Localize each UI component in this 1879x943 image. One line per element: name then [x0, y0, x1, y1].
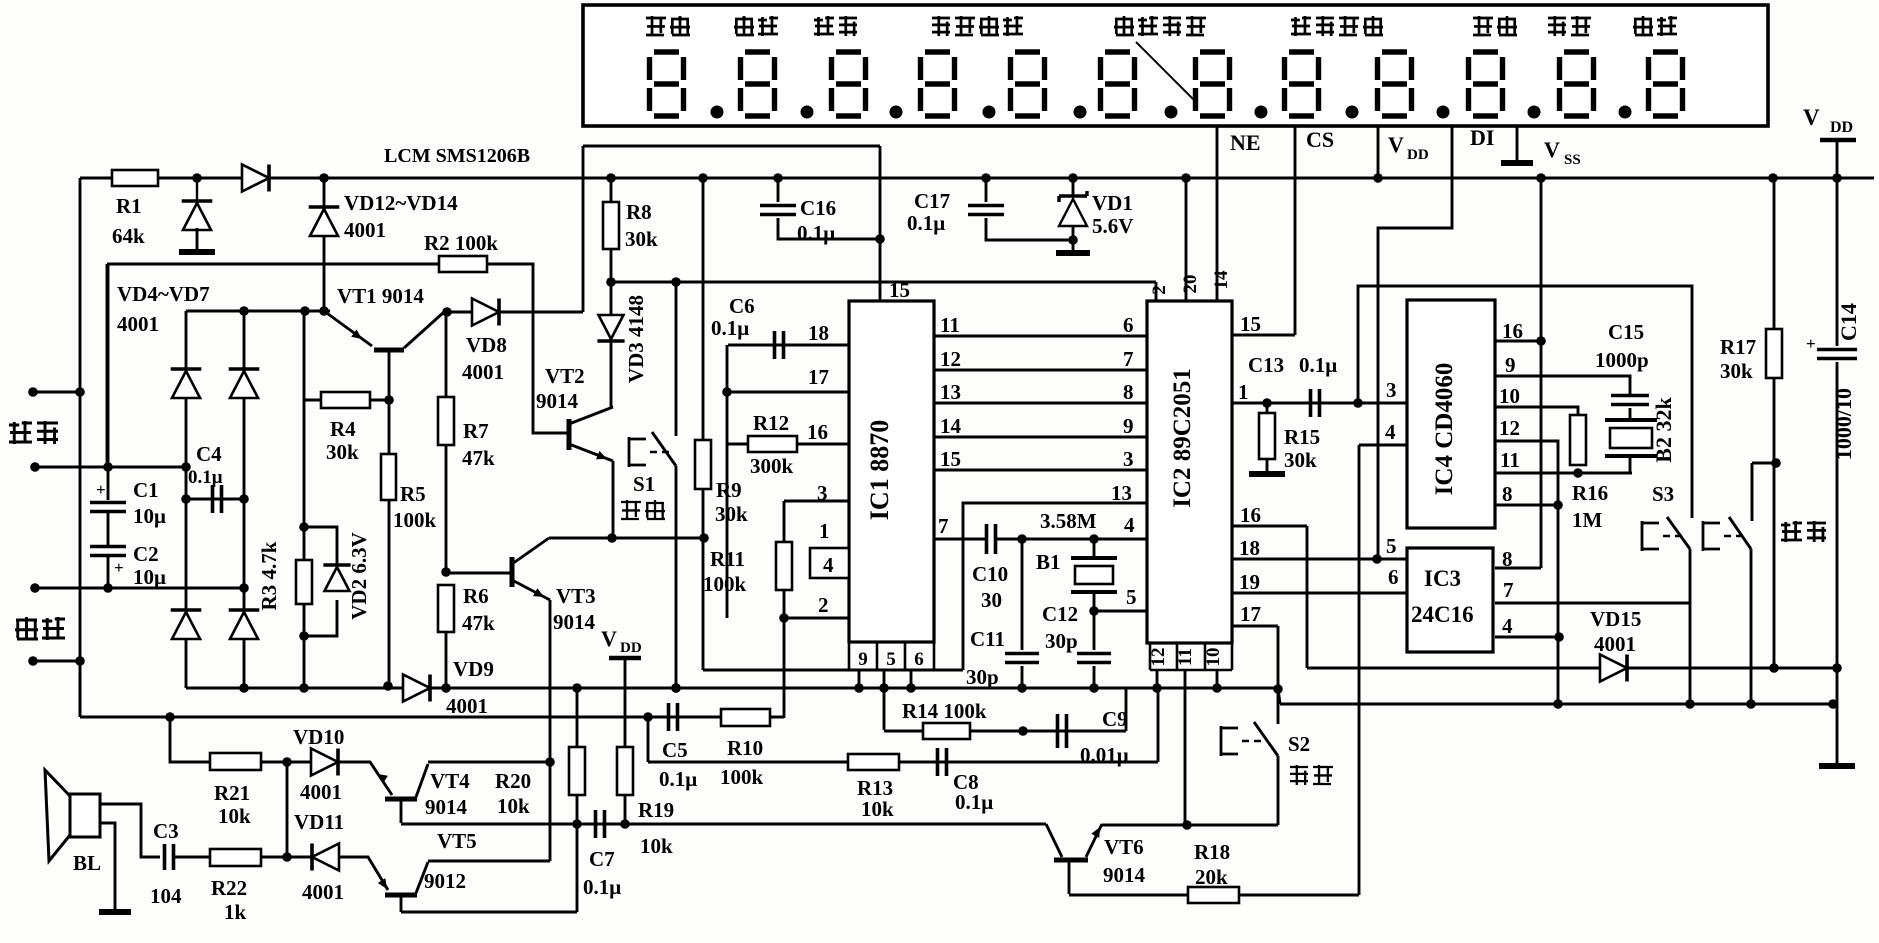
svg-text:5: 5: [1126, 585, 1137, 609]
svg-text:30k: 30k: [1284, 448, 1317, 472]
IC2 pin19 wire: [1232, 592, 1409, 595]
svg-text:R20: R20: [495, 769, 531, 793]
svg-text:R19: R19: [638, 798, 674, 822]
svg-text:4001: 4001: [300, 780, 342, 804]
wire display pin NE to IC2 pin 14: [1216, 126, 1219, 301]
svg-text:24C16: 24C16: [1411, 602, 1474, 627]
x703 vertical continues to y670 rail: [702, 538, 705, 670]
IC1 pin3 wire: [784, 500, 849, 503]
VT3 emitter vertical down: [549, 600, 552, 861]
svg-text:9014: 9014: [536, 389, 579, 413]
svg-text:4001: 4001: [344, 218, 386, 242]
svg-text:5: 5: [886, 649, 896, 670]
capacitor C7: [596, 810, 605, 838]
capacitor C6 on IC1 pin18: [728, 344, 849, 347]
svg-text:R22: R22: [211, 876, 247, 900]
zener diode VD1 5.6V with ground: [1072, 178, 1075, 196]
bottom right bus y704: [1280, 703, 1837, 706]
wire R2 right corner down to VT2 base: [487, 264, 569, 433]
svg-text:5.6V: 5.6V: [1092, 214, 1133, 238]
svg-text:S1: S1: [633, 472, 655, 496]
svg-text:VT2: VT2: [545, 364, 585, 388]
svg-text:R4: R4: [330, 417, 356, 441]
svg-text:12: 12: [1499, 416, 1520, 440]
transistor VT5 9012: [340, 857, 388, 890]
svg-text:6: 6: [1123, 313, 1134, 337]
vertical x108 with C1 C2: [107, 264, 110, 467]
diode VD3 4148: [610, 282, 613, 315]
svg-text:0.1μ: 0.1μ: [711, 316, 749, 340]
capacitor C11: [1021, 539, 1024, 650]
svg-text:14: 14: [940, 414, 962, 438]
svg-text:18: 18: [1239, 536, 1260, 560]
svg-text:1k: 1k: [224, 900, 247, 924]
svg-text:4001: 4001: [1594, 632, 1636, 656]
svg-text:9014: 9014: [425, 795, 468, 819]
svg-text:12: 12: [940, 347, 961, 371]
second bus y717: [80, 716, 784, 719]
svg-text:C15: C15: [1608, 320, 1644, 344]
svg-text:300k: 300k: [750, 454, 794, 478]
svg-text:R11: R11: [710, 547, 745, 571]
IC4 pin4 wire label: [1359, 444, 1407, 447]
svg-text:13: 13: [940, 380, 961, 404]
VT4 base line y824: [401, 823, 1046, 826]
svg-text:IC1 8870: IC1 8870: [865, 420, 894, 520]
svg-text:4001: 4001: [302, 880, 344, 904]
switch S2 chaxun: [1277, 626, 1280, 689]
resistor R12 on IC1 pin16: [748, 436, 797, 452]
zener VD2 parallel jog: [304, 527, 337, 636]
IC1 pin2 wire: [784, 617, 849, 620]
svg-text:0.1μ: 0.1μ: [659, 767, 697, 791]
capacitor C1 electrolytic: [90, 503, 126, 512]
big routing box around IC4: [1358, 286, 1692, 518]
svg-text:C9: C9: [1102, 707, 1128, 731]
svg-text:0.1μ: 0.1μ: [955, 790, 993, 814]
transistor VT3 9014: [446, 572, 512, 575]
svg-text:VD10: VD10: [293, 725, 344, 749]
svg-text:4001: 4001: [462, 360, 504, 384]
svg-text:30p: 30p: [966, 665, 999, 689]
resistor R14: [923, 723, 970, 739]
svg-text:9: 9: [1505, 353, 1516, 377]
R14 line from ground bus: [883, 688, 886, 730]
switch S3 second pole: [1729, 463, 1752, 549]
decimal point dots: [711, 106, 724, 119]
diode VD11 pointing left: [312, 844, 339, 871]
svg-text:+: +: [96, 480, 106, 499]
capacitor C3: [165, 844, 174, 870]
resistor R4: [304, 399, 322, 402]
svg-text:1: 1: [819, 519, 830, 543]
svg-text:16: 16: [1240, 503, 1261, 527]
wire display pin CS down to IC2 pin15 line: [1294, 126, 1297, 335]
svg-text:5: 5: [1386, 534, 1397, 558]
svg-text:C17: C17: [914, 189, 950, 213]
svg-text:4001: 4001: [446, 694, 488, 718]
svg-text:8: 8: [1123, 380, 1134, 404]
svg-text:IC3: IC3: [1424, 566, 1461, 591]
svg-text:VT6: VT6: [1104, 835, 1144, 859]
supply bus VDD horizontal: [80, 177, 1874, 180]
display ground pin stub: [1516, 126, 1519, 161]
svg-text:S3: S3: [1652, 482, 1674, 506]
resistor R16: [1570, 415, 1586, 465]
wire x1158 up to ground bus: [1157, 688, 1160, 762]
svg-text:11: 11: [1175, 648, 1196, 666]
svg-text:10μ: 10μ: [133, 565, 166, 589]
wire C9 corner up to bus: [1125, 688, 1128, 731]
svg-text:IC2 89C2051: IC2 89C2051: [1169, 368, 1196, 508]
svg-text:4: 4: [1502, 614, 1513, 638]
jog from R17 vertical to S3: [1752, 462, 1776, 465]
left vertical rail x80: [79, 178, 82, 717]
svg-text:11: 11: [1500, 448, 1520, 472]
svg-text:VD15: VD15: [1590, 607, 1641, 631]
bridge top wire y311: [186, 310, 330, 313]
IC1 bottom pin cells 9 5 6: [849, 642, 934, 670]
svg-text:9014: 9014: [1103, 863, 1146, 887]
wire R18 up to IC4 pin4 long vertical: [1358, 445, 1361, 895]
IC2 pin17 wire corner down: [1232, 625, 1278, 628]
wire from display area down-left loop: [583, 145, 880, 148]
svg-text:0.1μ: 0.1μ: [797, 221, 835, 245]
IC3 pin7 wire: [1495, 602, 1690, 605]
svg-text:C12: C12: [1042, 602, 1078, 626]
IC4 pin8 wire: [1495, 504, 1558, 507]
diode VD14 horizontal on bus: [242, 165, 269, 192]
x1558 vertical down to bottom bus: [1557, 505, 1560, 704]
resistor R20: [576, 688, 579, 748]
VT5 collector line to x551: [428, 860, 550, 863]
resistor R22: [174, 856, 211, 859]
svg-text:R14 100k: R14 100k: [902, 699, 987, 723]
svg-text:9012: 9012: [424, 869, 466, 893]
svg-text:R3 4.7k: R3 4.7k: [257, 541, 281, 610]
svg-text:R9: R9: [716, 478, 742, 502]
op-amp IC1 8870 box: [849, 301, 934, 642]
svg-text:30p: 30p: [1045, 629, 1078, 653]
svg-text:15: 15: [940, 447, 961, 471]
svg-text:7: 7: [1123, 347, 1134, 371]
svg-text:13: 13: [1111, 481, 1132, 505]
capacitor C9: [1058, 714, 1067, 748]
svg-text:6: 6: [914, 649, 924, 670]
resistor R7: [445, 312, 448, 398]
svg-text:14: 14: [1211, 270, 1232, 290]
IC2 bottom pin cells 12 11 10: [1150, 643, 1232, 670]
resistor R11 on IC1 pin3 drop: [783, 501, 786, 543]
resistor R18: [1069, 894, 1189, 897]
wire VT1 collector to VD8 line: [444, 311, 583, 314]
svg-text:C14: C14: [1836, 303, 1861, 341]
svg-text:10k: 10k: [497, 794, 530, 818]
resistor R15 with ground: [1266, 403, 1269, 414]
svg-text:R18: R18: [1194, 840, 1230, 864]
svg-text:100k: 100k: [393, 508, 437, 532]
svg-text:R1: R1: [116, 194, 142, 218]
IC2 pin1 C13 line: [1232, 402, 1407, 405]
interconnect y282 to IC2 pin2: [611, 281, 1156, 284]
svg-text:VD1: VD1: [1092, 191, 1133, 215]
svg-text:1000/10: 1000/10: [1831, 388, 1856, 460]
svg-text:100k: 100k: [703, 572, 747, 596]
svg-text:C7: C7: [589, 847, 615, 871]
IC4 pin10 wire to R16: [1495, 407, 1578, 416]
svg-text:R6: R6: [463, 584, 489, 608]
svg-text:LCM SMS1206B: LCM SMS1206B: [384, 145, 530, 167]
svg-text:9: 9: [858, 649, 868, 670]
svg-text:9014: 9014: [553, 610, 596, 634]
svg-text:C10: C10: [972, 562, 1008, 586]
svg-text:2: 2: [818, 593, 829, 617]
svg-text:C2: C2: [133, 542, 159, 566]
ground symbol bottom right: [1836, 704, 1839, 764]
svg-text:3: 3: [817, 481, 828, 505]
svg-text:17: 17: [808, 365, 829, 389]
IC4 pin11 wire: [1495, 472, 1632, 475]
svg-text:R21: R21: [214, 781, 250, 805]
line terminal lower pair: [30, 583, 40, 593]
crystal B2 32k: [1629, 408, 1632, 420]
svg-text:C1: C1: [133, 478, 159, 502]
switch S1 with long vertical: [675, 282, 678, 436]
svg-text:11: 11: [940, 313, 960, 337]
svg-text:VD3 4148: VD3 4148: [624, 295, 648, 383]
svg-text:47k: 47k: [462, 446, 495, 470]
svg-text:10k: 10k: [861, 797, 894, 821]
display digit labels (Chinese captions): [646, 16, 666, 36]
phone terminal upper pair: [28, 387, 38, 397]
svg-text:3: 3: [1123, 447, 1134, 471]
svg-text:C3: C3: [153, 819, 179, 843]
svg-text:R16: R16: [1572, 481, 1608, 505]
diode VD8: [472, 299, 499, 326]
svg-text:20k: 20k: [1195, 865, 1228, 889]
link between R21 and R22 lines: [286, 762, 289, 857]
svg-text:20: 20: [1180, 275, 1201, 294]
svg-text:7: 7: [938, 514, 949, 538]
resistor R3 with label: [303, 311, 306, 561]
IC2 pin13 wire with corner: [963, 503, 1147, 670]
diode VD12 with ground: [196, 178, 198, 201]
svg-text:+: +: [114, 558, 124, 577]
label xianlu (line): [15, 617, 38, 640]
capacitor C5 on y717 line: [669, 703, 678, 731]
svg-text:R5: R5: [400, 482, 426, 506]
jog ground bus to y704: [1278, 688, 1280, 704]
IC1 pin17 wire: [727, 391, 849, 394]
counter IC4 CD4060 box: [1407, 300, 1495, 528]
svg-text:V: V: [1803, 105, 1820, 130]
resistor R10: [721, 709, 770, 726]
svg-text:3: 3: [1386, 378, 1397, 402]
micro IC2 89C2051 box: [1147, 301, 1232, 643]
VT6 emitter line y824 east: [1102, 824, 1278, 827]
svg-text:DD: DD: [1830, 119, 1853, 136]
svg-text:7: 7: [1503, 578, 1514, 602]
svg-text:1000p: 1000p: [1595, 348, 1649, 372]
svg-text:10μ: 10μ: [133, 504, 166, 528]
IC2 pin18 wire: [1232, 558, 1409, 561]
IC4 pin9 wire to C15: [1495, 376, 1630, 394]
svg-text:R8: R8: [626, 200, 652, 224]
svg-text:12: 12: [1148, 648, 1169, 667]
svg-text:15: 15: [1240, 312, 1261, 336]
svg-text:V: V: [1544, 137, 1560, 162]
svg-text:R2 100k: R2 100k: [424, 231, 498, 255]
diode VD9 on ground bus: [403, 675, 430, 702]
speaker BL: [70, 794, 100, 837]
svg-text:64k: 64k: [112, 224, 145, 248]
wire from ground bus to VT6 line: [1184, 688, 1187, 825]
capacitor C12: [1093, 611, 1096, 650]
svg-text:9: 9: [1123, 414, 1134, 438]
svg-text:C11: C11: [970, 627, 1005, 651]
svg-text:15: 15: [889, 278, 910, 302]
svg-text:17: 17: [1240, 602, 1261, 626]
svg-text:VT3: VT3: [556, 584, 596, 608]
electrolytic C14 on right rail: [1836, 178, 1839, 346]
svg-text:VT4: VT4: [430, 769, 470, 793]
svg-text:DD: DD: [1407, 147, 1429, 163]
svg-text:C4: C4: [196, 442, 222, 466]
svg-text:VT5: VT5: [437, 829, 477, 853]
svg-text:4: 4: [823, 553, 834, 577]
svg-text:VD11: VD11: [294, 810, 344, 834]
IC2 bottom pin drops: [1156, 670, 1159, 688]
svg-text:3.58M: 3.58M: [1040, 509, 1097, 533]
resistor R19: [624, 658, 627, 748]
IC4 pin16 wire: [1495, 340, 1541, 343]
svg-text:4: 4: [1124, 513, 1135, 537]
bridge right rail with diodes VD5 VD7: [243, 311, 246, 688]
wire display pin DI jog down to IC2 pin18 line: [1378, 126, 1452, 559]
svg-text:30k: 30k: [1720, 359, 1753, 383]
resistor R17: [1773, 178, 1776, 330]
label huaji (telephone): [9, 421, 32, 444]
svg-text:VD12~VD14: VD12~VD14: [344, 191, 458, 215]
VT2 emitter down to y538: [612, 461, 615, 538]
svg-text:0.1μ: 0.1μ: [188, 467, 223, 488]
svg-text:B2 32k: B2 32k: [1651, 397, 1676, 463]
wire second bus y264 to R2: [107, 263, 440, 266]
svg-text:C6: C6: [729, 294, 755, 318]
svg-text:VT1 9014: VT1 9014: [337, 284, 424, 308]
svg-text:0.01μ: 0.01μ: [1080, 743, 1129, 767]
resistor R13: [848, 754, 899, 770]
IC2 pin5 wire: [1094, 610, 1147, 613]
svg-text:C13: C13: [1248, 353, 1284, 377]
svg-text:R10: R10: [727, 736, 763, 760]
capacitor C13: [1311, 389, 1320, 417]
svg-text:R7: R7: [463, 419, 489, 443]
ground symbol below display: [1501, 160, 1533, 166]
IC1 pin4 inset box: [810, 548, 849, 578]
ground bus y688: [186, 687, 1278, 690]
memory IC3 24C16 box: [1407, 548, 1493, 652]
svg-text:VD4~VD7: VD4~VD7: [117, 282, 210, 306]
svg-text:16: 16: [807, 420, 828, 444]
svg-text:R15: R15: [1284, 425, 1320, 449]
junction dots on supply bus: [192, 173, 202, 183]
svg-text:VD9: VD9: [453, 657, 494, 681]
svg-text:B1: B1: [1036, 550, 1061, 574]
svg-text:2: 2: [1149, 285, 1170, 295]
wire x648 corner down to R13 line: [647, 717, 650, 762]
transistor VT4 9014: [339, 762, 392, 795]
svg-text:100k: 100k: [720, 765, 764, 789]
svg-text:R12: R12: [753, 411, 789, 435]
svg-text:30k: 30k: [715, 502, 748, 526]
resistor R8: [610, 178, 613, 203]
label chaxun (query): [1290, 765, 1308, 785]
svg-text:10: 10: [1203, 648, 1224, 667]
VT3 collector line y538: [549, 537, 704, 540]
speaker ground wire: [100, 823, 115, 910]
svg-text:4001: 4001: [117, 312, 159, 336]
transistor VT6 9014: [1046, 824, 1062, 857]
svg-text:16: 16: [1502, 319, 1523, 343]
IC2 pin15 wire to CS: [1232, 334, 1295, 337]
IC3 pin8 wire corner up to VSS: [1495, 567, 1541, 570]
capacitor C16: [777, 178, 780, 202]
svg-text:18: 18: [808, 321, 829, 345]
VT5 base line up to y824: [401, 911, 577, 914]
IC1 pin7 line with capacitor C10: [934, 538, 986, 541]
svg-text:10k: 10k: [218, 804, 251, 828]
svg-text:4: 4: [1385, 420, 1396, 444]
resistor R21: [170, 717, 211, 762]
resistor R2: [439, 256, 487, 272]
IC4 pin12 wire corner down: [1495, 441, 1558, 505]
svg-text:R17: R17: [1720, 335, 1756, 359]
y670 rail under IC1: [703, 669, 963, 672]
diode VD13 vertical: [323, 178, 326, 311]
resistor R6: [438, 585, 454, 632]
wire left leg x583 down to VD8 line: [582, 146, 585, 312]
resistor R9: [702, 178, 705, 441]
svg-text:30: 30: [981, 588, 1002, 612]
IC2 pin16 wire corner down: [1232, 525, 1307, 528]
svg-text:VD8: VD8: [466, 333, 507, 357]
svg-text:0.1μ: 0.1μ: [583, 875, 621, 899]
VT4 collector line to x551: [428, 761, 550, 764]
svg-text:IC4 CD4060: IC4 CD4060: [1431, 363, 1458, 496]
wire IC2 pin2 drop: [1155, 282, 1158, 301]
seven-segment digits row: [650, 52, 684, 116]
speaker top wire to C3: [100, 804, 160, 857]
svg-text:DD: DD: [620, 640, 642, 656]
svg-text:DI: DI: [1470, 125, 1494, 150]
svg-text:V: V: [601, 626, 617, 651]
svg-text:1: 1: [1238, 380, 1249, 404]
svg-text:30k: 30k: [625, 227, 658, 251]
svg-text:NE: NE: [1230, 130, 1261, 155]
svg-text:BL: BL: [73, 851, 101, 875]
capacitor C17: [985, 178, 988, 202]
bridge left rail with diodes VD4 VD6: [185, 311, 188, 688]
diode VD15 on y668 line: [1307, 667, 1837, 670]
VSS vertical x1541: [1540, 178, 1543, 568]
svg-text:CS: CS: [1306, 127, 1334, 152]
svg-text:10k: 10k: [640, 834, 673, 858]
svg-text:C5: C5: [662, 738, 688, 762]
resistor R5: [388, 400, 391, 455]
IC1 pin 9 5 6 drops to ground bus: [858, 670, 861, 688]
diode VD10: [311, 749, 338, 776]
